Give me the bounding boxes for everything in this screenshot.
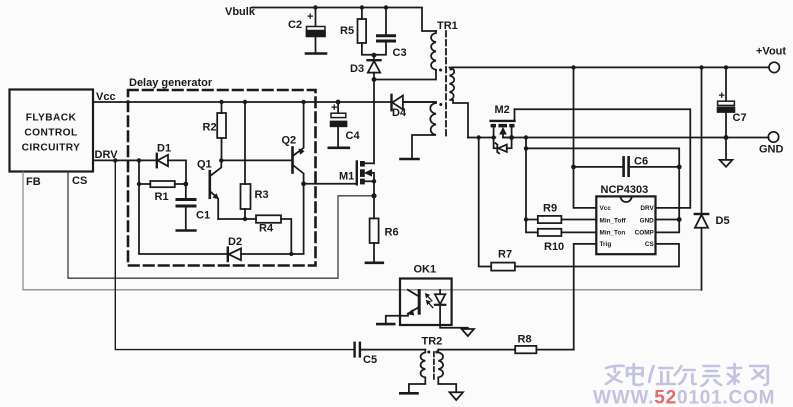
svg-text:R4: R4	[259, 223, 274, 235]
svg-text:WWW.520101.COM: WWW.520101.COM	[593, 388, 775, 407]
svg-text:Vcc: Vcc	[600, 205, 612, 212]
svg-text:R2: R2	[203, 122, 217, 134]
svg-text:C7: C7	[733, 112, 747, 124]
svg-text:D1: D1	[157, 143, 171, 155]
svg-text:R8: R8	[518, 334, 532, 346]
svg-text:DRV: DRV	[95, 149, 119, 161]
svg-text:Delay generator: Delay generator	[129, 77, 213, 89]
svg-text:R3: R3	[255, 189, 269, 201]
svg-text:TR2: TR2	[422, 336, 443, 348]
svg-text:OK1: OK1	[414, 264, 437, 276]
svg-text:FLYBACK: FLYBACK	[26, 113, 77, 124]
svg-text:CONTROL: CONTROL	[24, 128, 77, 139]
svg-text:Vbulk: Vbulk	[225, 6, 256, 18]
svg-text:R6: R6	[385, 227, 399, 239]
svg-text:+: +	[307, 11, 313, 23]
svg-text:R10: R10	[544, 241, 564, 253]
svg-text:COMP: COMP	[635, 229, 655, 236]
svg-text:NCP4303: NCP4303	[601, 184, 649, 196]
svg-text:Trig: Trig	[600, 241, 612, 248]
svg-text:+: +	[719, 90, 725, 102]
svg-text:C2: C2	[288, 19, 302, 31]
svg-text:CS: CS	[645, 241, 655, 248]
svg-text:M2: M2	[495, 104, 510, 116]
svg-text:Min_Toff: Min_Toff	[600, 217, 627, 224]
svg-text:Q1: Q1	[197, 159, 212, 171]
svg-text:Vcc: Vcc	[96, 91, 116, 103]
svg-text:GND: GND	[759, 144, 784, 156]
svg-text:D3: D3	[350, 63, 364, 75]
svg-text:R7: R7	[498, 249, 512, 261]
svg-text:Q2: Q2	[282, 135, 297, 147]
svg-text:R9: R9	[543, 203, 557, 215]
svg-text:FB: FB	[26, 176, 41, 188]
svg-text:R5: R5	[340, 25, 354, 37]
svg-text:M1: M1	[339, 171, 354, 183]
svg-text:TR1: TR1	[437, 20, 458, 32]
svg-text:GND: GND	[640, 217, 655, 224]
svg-text:R1: R1	[155, 191, 169, 203]
svg-text:C3: C3	[393, 47, 407, 59]
svg-text:D4: D4	[392, 107, 407, 119]
svg-text:C4: C4	[346, 130, 361, 142]
svg-text:C1: C1	[196, 210, 210, 222]
svg-text:CIRCUITRY: CIRCUITRY	[22, 143, 81, 154]
svg-text:C6: C6	[634, 156, 648, 168]
svg-text:Min_Ton: Min_Ton	[600, 229, 626, 236]
svg-text:D5: D5	[716, 215, 730, 227]
svg-text:+: +	[331, 102, 337, 114]
svg-text:+Vout: +Vout	[756, 46, 786, 58]
svg-text:DRV: DRV	[640, 205, 654, 212]
svg-text:C5: C5	[363, 354, 377, 366]
svg-text:D2: D2	[228, 236, 242, 248]
svg-text:CS: CS	[72, 175, 87, 187]
